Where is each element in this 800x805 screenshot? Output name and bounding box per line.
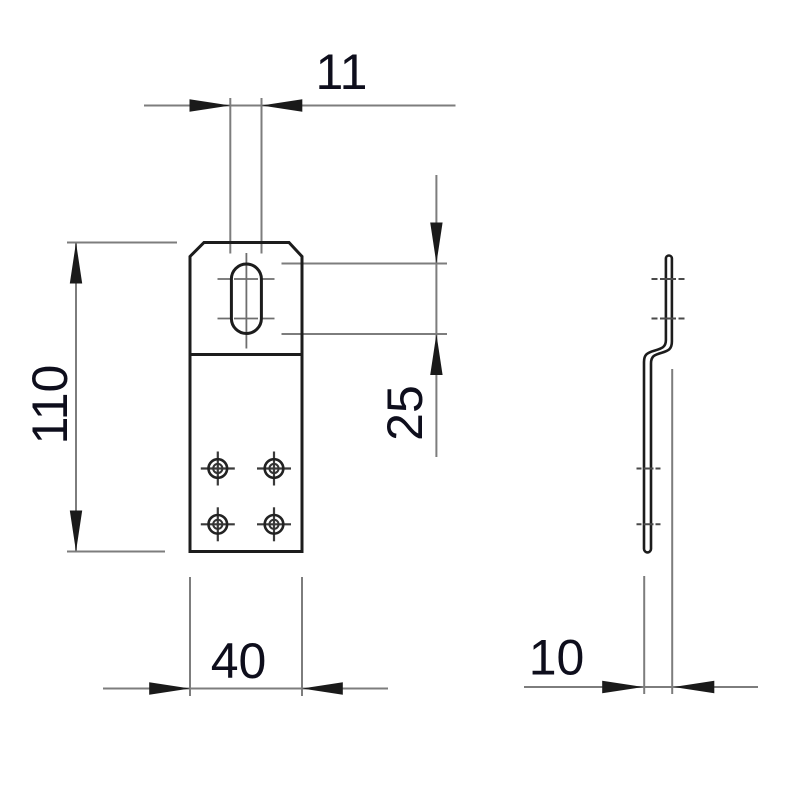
svg-text:25: 25 — [377, 385, 433, 441]
dim 40 extension line right — [301, 577, 303, 696]
slot — [231, 264, 261, 334]
hole bottom-right — [257, 507, 291, 541]
dim 10 extension line right — [671, 369, 673, 694]
dim 11 arrow left — [190, 99, 231, 111]
dim 10 dimension line — [524, 686, 758, 688]
dim 40 extension line left — [189, 577, 191, 696]
side view center tick 2 — [652, 318, 685, 320]
dim 11 extension line left — [229, 98, 231, 254]
dim 10 arrow right — [674, 681, 715, 693]
plate outline front view — [190, 243, 302, 552]
hole top-right — [257, 452, 291, 486]
dim 110 arrow top — [70, 243, 82, 284]
dim 110 dimension line — [75, 243, 77, 552]
dim 40 dimension line — [103, 688, 388, 690]
dim 40 arrow left — [149, 682, 190, 694]
dim 110 extension line bottom — [67, 551, 165, 553]
dim 25 extension line bottom — [282, 333, 448, 335]
slot center tick top — [218, 278, 275, 280]
slot vertical centerline — [245, 253, 247, 349]
dim 25 extension line top — [282, 263, 448, 265]
svg-text:110: 110 — [22, 365, 78, 445]
side view center tick 4 — [637, 523, 661, 525]
svg-text:11: 11 — [316, 44, 368, 100]
dim 25 arrow bottom — [430, 334, 442, 375]
side view center tick 1 — [652, 278, 685, 280]
side view strip outline — [644, 256, 672, 553]
dim 25 arrow top — [430, 223, 442, 264]
svg-text:40: 40 — [211, 633, 267, 689]
dim 40 arrow right — [302, 682, 343, 694]
dim 10 extension line left — [643, 576, 645, 694]
dim 110 extension line top — [67, 242, 177, 244]
side view center tick 3 — [637, 468, 661, 470]
hole top-left — [201, 452, 235, 486]
dim 10 arrow left — [602, 681, 643, 693]
dim 11 extension line right — [261, 98, 263, 254]
svg-text:10: 10 — [529, 630, 585, 686]
dim 25 dimension line — [435, 175, 437, 457]
hole bottom-left — [201, 507, 235, 541]
dim 110 arrow bottom — [70, 511, 82, 552]
bend line — [190, 353, 302, 356]
dim 11 arrow right — [262, 99, 303, 111]
slot center tick bottom — [218, 318, 275, 320]
dim 11 dimension line — [144, 105, 456, 107]
